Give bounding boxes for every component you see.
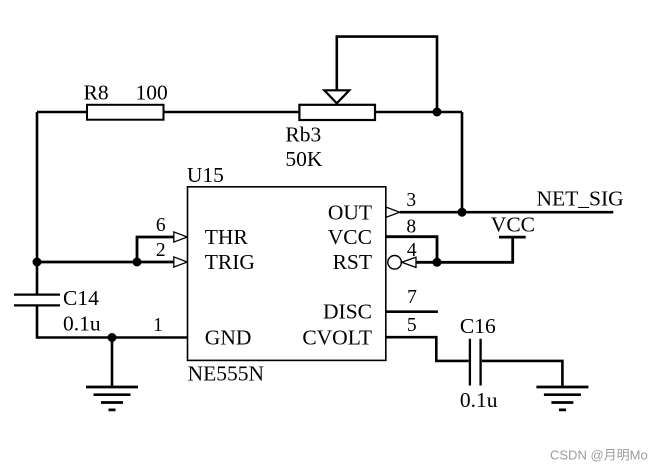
svg-text:7: 7 (407, 287, 417, 308)
svg-text:0.1u: 0.1u (63, 311, 101, 335)
wire: left vertical rail (36, 112, 39, 294)
junction dot OUT/feedback (458, 208, 467, 217)
wire: stub down to ground symbol (111, 338, 114, 387)
capacitor C16 plates (470, 339, 481, 386)
svg-text:Rb3: Rb3 (285, 123, 321, 147)
svg-text:50K: 50K (285, 147, 323, 171)
wire: RST to VCC symbol (416, 238, 513, 262)
op IC U15 body (188, 187, 386, 361)
pin arrow RST (402, 257, 416, 267)
junction dot at THR/TRIG split (133, 258, 142, 267)
junction dot on ground wire (108, 333, 117, 342)
svg-text:OUT: OUT (328, 200, 372, 224)
svg-text:GND: GND (205, 325, 252, 349)
capacitor C14 plates (14, 295, 60, 306)
potentiometer wiper arrow (324, 90, 349, 103)
svg-text:THR: THR (205, 225, 249, 249)
svg-text:U15: U15 (187, 163, 224, 187)
wire: rail between R8 and Rb3 (164, 111, 300, 114)
svg-text:5: 5 (407, 315, 417, 336)
VCC power bar (499, 236, 526, 239)
potentiometer Rb3 body (299, 105, 375, 120)
wire: below C14 down and right to GND pin (37, 307, 188, 338)
svg-text:4: 4 (407, 240, 417, 261)
svg-text:6: 6 (156, 215, 166, 236)
svg-text:0.1u: 0.1u (460, 388, 498, 412)
svg-text:VCC: VCC (491, 213, 535, 237)
wire: rail from Rb3 to right corner (375, 111, 462, 114)
svg-text:R8: R8 (84, 80, 109, 104)
wire: OUT to NET_SIG (400, 211, 614, 214)
ground symbol (right) (536, 387, 588, 410)
wire: C16 to right ground (482, 361, 563, 387)
svg-text:C16: C16 (460, 314, 496, 338)
svg-text:100: 100 (136, 80, 168, 104)
svg-text:3: 3 (406, 190, 416, 211)
wire: THR/TRIG branch from left rail (37, 261, 137, 264)
wire: CVOLT pin 5 to C16 (386, 337, 469, 361)
wire: VCC pin 8 (386, 237, 437, 263)
svg-text:C14: C14 (63, 286, 99, 310)
ground symbol (left) (86, 387, 138, 410)
svg-text:NE555N: NE555N (188, 362, 265, 386)
svg-text:VCC: VCC (328, 225, 372, 249)
resistor R8 body (87, 105, 164, 120)
svg-text:8: 8 (406, 216, 416, 237)
svg-text:2: 2 (156, 240, 166, 261)
RST bubble (pin 4) (388, 255, 402, 269)
wire: TRIG row (137, 261, 174, 264)
pin arrow THR (pin 6) (174, 232, 188, 242)
wire: DISC pin 7 (386, 310, 438, 313)
junction dot on rail at loop return (433, 108, 442, 117)
svg-text:CVOLT: CVOLT (302, 325, 372, 349)
wire: vertical from rail corner down to OUT line (461, 112, 464, 212)
junction dot RST/pin8 (433, 258, 442, 267)
wire: top feedback loop of potentiometer (337, 37, 437, 112)
svg-text:TRIG: TRIG (205, 250, 255, 274)
svg-text:DISC: DISC (323, 300, 372, 324)
svg-text:1: 1 (153, 315, 163, 336)
pin arrow TRIG (pin 2) (174, 257, 188, 267)
wire: left segment of top rail (37, 111, 87, 114)
svg-text:CSDN @月明Mo: CSDN @月明Mo (550, 448, 648, 463)
wire: up to THR row (137, 237, 174, 262)
svg-text:RST: RST (333, 250, 372, 274)
pin arrow OUT (pin 3) (386, 207, 400, 217)
junction dot at left rail / TRIG branch (33, 258, 42, 267)
svg-text:NET_SIG: NET_SIG (537, 187, 624, 211)
